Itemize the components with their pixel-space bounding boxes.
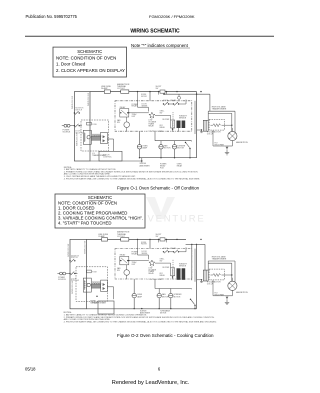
svg-text:TRANSFORMER: TRANSFORMER: [212, 108, 227, 111]
svg-text:SWITCH: SWITCH: [75, 109, 82, 111]
svg-text:SW: SW: [117, 122, 120, 124]
svg-text:1. Door Closed: 1. Door Closed: [56, 62, 86, 67]
svg-text:NOTE: CONDITION OF OVEN: NOTE: CONDITION OF OVEN: [56, 55, 116, 60]
svg-text:SCHEMATIC: SCHEMATIC: [77, 49, 102, 54]
svg-text:05/18: 05/18: [25, 366, 36, 371]
svg-text:INTERLOCK SW: INTERLOCK SW: [68, 244, 70, 257]
svg-text:MAGNETRON: MAGNETRON: [236, 291, 248, 294]
svg-text:MAGNETRON: MAGNETRON: [236, 141, 248, 144]
svg-text:RELAY: RELAY: [132, 105, 138, 108]
svg-text:RELAY: RELAY: [120, 254, 126, 257]
svg-text:COOK: COOK: [163, 248, 169, 250]
svg-text:RECTIFIER: RECTIFIER: [215, 294, 225, 296]
svg-text:TRANSFORMER: TRANSFORMER: [212, 258, 227, 261]
svg-text:TRANSFORMER: TRANSFORMER: [92, 302, 107, 305]
svg-text:RELAY: RELAY: [148, 272, 154, 275]
svg-text:20 AMP: 20 AMP: [101, 87, 108, 90]
svg-text:Figure O-2 Oven Schematic - Co: Figure O-2 Oven Schematic - Cooking Cond…: [117, 333, 214, 338]
svg-text:BUZZER: BUZZER: [163, 119, 171, 121]
svg-text:RELAY: RELAY: [120, 106, 126, 109]
svg-text:VENTURE: VENTURE: [148, 214, 206, 225]
svg-text:FGMO205K / FPMO209K: FGMO205K / FPMO209K: [149, 14, 195, 19]
svg-text:2. CLOCK APPEARS ON DISPLAY: 2. CLOCK APPEARS ON DISPLAY: [56, 68, 125, 73]
svg-text:UNIT: UNIT: [132, 264, 136, 266]
svg-text:PANEL: PANEL: [160, 126, 165, 129]
svg-text:CUTOUT: CUTOUT: [117, 236, 126, 238]
svg-text:CUTOUT: CUTOUT: [117, 88, 126, 90]
svg-text:INTERLOCK SW: INTERLOCK SW: [85, 241, 87, 254]
svg-text:RELAY: RELAY: [171, 99, 177, 102]
svg-text:INTERLOCK SW: INTERLOCK SW: [72, 281, 74, 294]
svg-text:Rendered by LeadVenture, Inc.: Rendered by LeadVenture, Inc.: [112, 380, 190, 386]
svg-text:FILTER: FILTER: [141, 96, 147, 98]
svg-text:SW: SW: [156, 236, 159, 238]
svg-text:COOK: COOK: [163, 100, 169, 102]
svg-text:SOURCE: SOURCE: [58, 279, 66, 281]
svg-text:MOTOR: MOTOR: [160, 312, 167, 314]
svg-text:WIRING SCHEMATIC: WIRING SCHEMATIC: [130, 28, 180, 34]
svg-text:MOTOR: MOTOR: [164, 148, 171, 150]
svg-text:FILTER: FILTER: [141, 244, 147, 246]
svg-text:MOTOR: MOTOR: [174, 296, 181, 298]
svg-text:LAMP: LAMP: [137, 295, 143, 298]
svg-text:4. "START" PAD TOUCHED: 4. "START" PAD TOUCHED: [58, 221, 112, 226]
svg-text:INTERLOCK SW: INTERLOCK SW: [88, 93, 90, 106]
svg-text:ABSORBER: ABSORBER: [140, 164, 151, 167]
svg-text:INTLK SW: INTLK SW: [75, 132, 83, 134]
svg-text:RELAY: RELAY: [177, 165, 183, 168]
svg-text:SENSOR: SENSOR: [179, 118, 187, 120]
svg-text:4. PROTECTIVE EARTH SHALL BE C: 4. PROTECTIVE EARTH SHALL BE CONNECTED T…: [64, 177, 201, 180]
svg-text:RELAY: RELAY: [148, 124, 154, 127]
svg-text:SW: SW: [117, 270, 120, 272]
svg-text:MOTOR: MOTOR: [162, 296, 169, 298]
svg-text:SENSOR: SENSOR: [179, 265, 187, 267]
svg-text:MOTOR: MOTOR: [177, 148, 184, 150]
svg-text:RELAY: RELAY: [171, 247, 177, 250]
svg-text:4. PROTECTIVE EARTH SHALL BE C: 4. PROTECTIVE EARTH SHALL BE CONNECTED T…: [64, 321, 218, 324]
svg-text:SENSE: SENSE: [142, 105, 149, 107]
svg-text:INTERLOCK SW: INTERLOCK SW: [77, 133, 79, 146]
svg-text:SW: SW: [160, 113, 163, 115]
svg-text:Figure O-1 Oven Schematic - Of: Figure O-1 Oven Schematic - Off Conditio…: [117, 186, 200, 191]
svg-text:Publication No. 5995702775: Publication No. 5995702775: [26, 14, 78, 19]
svg-text:UNIT: UNIT: [132, 116, 136, 118]
svg-text:INTERLOCK SW: INTERLOCK SW: [72, 96, 74, 109]
svg-text:20 AMP: 20 AMP: [98, 235, 105, 238]
svg-text:BUZZER: BUZZER: [163, 267, 171, 269]
svg-text:TRANSFORMER: TRANSFORMER: [92, 154, 107, 157]
svg-text:LAMP: LAMP: [142, 147, 148, 150]
svg-text:PANEL: PANEL: [160, 274, 165, 277]
svg-text:SWITCH: SWITCH: [71, 257, 78, 259]
svg-text:INTLK SW: INTLK SW: [71, 280, 79, 282]
svg-text:Note "*" indicates component: Note "*" indicates component: [131, 43, 189, 48]
svg-text:SW: SW: [156, 88, 159, 90]
svg-text:SW: SW: [160, 260, 163, 262]
svg-text:SENSE: SENSE: [142, 253, 149, 255]
svg-text:RECTIFIER: RECTIFIER: [215, 145, 225, 147]
svg-text:SOURCE: SOURCE: [63, 131, 71, 133]
svg-text:RELAY: RELAY: [132, 253, 138, 256]
